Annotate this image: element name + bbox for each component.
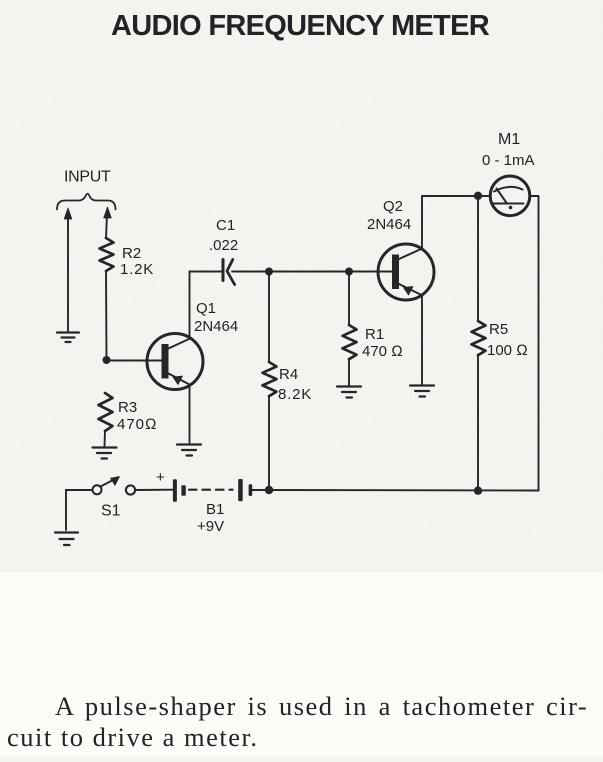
svg-text:470 Ω: 470 Ω	[362, 343, 403, 360]
wire top row to meter	[422, 195, 491, 197]
ground input left	[57, 333, 79, 343]
ground S1	[55, 533, 78, 546]
node F junction dot (bottom R5)	[474, 487, 482, 495]
svg-text:.022: .022	[209, 237, 238, 254]
svg-text:1.2K: 1.2K	[120, 261, 154, 278]
svg-text:0 - 1mA: 0 - 1mA	[482, 152, 535, 169]
svg-text:AUDIO FREQUENCY METER: AUDIO FREQUENCY METER	[111, 10, 490, 42]
wire R3 to ground	[104, 431, 107, 446]
svg-text:INPUT: INPUT	[64, 169, 111, 186]
wire input left arrow	[67, 215, 69, 331]
wire Q2 emitter down	[421, 296, 423, 384]
wire node A to Q1 base	[107, 360, 162, 362]
transistor Q1	[147, 334, 203, 390]
ground Q2 emitter	[410, 386, 434, 397]
wire S1 down	[65, 490, 67, 530]
wire battery to bottom row	[252, 489, 539, 492]
svg-text:2N464: 2N464	[367, 216, 411, 233]
svg-text:R2: R2	[122, 245, 141, 262]
svg-text:100 Ω: 100 Ω	[487, 342, 528, 359]
wire meter right to right column	[530, 196, 539, 491]
wire R4 column upper	[268, 272, 270, 363]
wire S1 to battery	[136, 489, 173, 491]
resistor R4	[263, 362, 277, 396]
svg-text:R3: R3	[118, 399, 137, 416]
node D junction dot (R5/meter tap)	[474, 192, 482, 200]
svg-text:+9V: +9V	[197, 518, 224, 535]
wire R5 column	[477, 196, 479, 491]
svg-text:8.2K: 8.2K	[278, 386, 312, 403]
ground R1	[337, 387, 361, 398]
capacitor C1	[222, 260, 225, 281]
node C junction dot (R1 tap)	[345, 268, 353, 276]
wire Q2 collector up	[421, 196, 423, 249]
svg-text:C1: C1	[216, 217, 235, 234]
wire Q1 collector up	[189, 272, 191, 339]
wire Q1 emitter down	[189, 385, 191, 443]
svg-text:B1: B1	[206, 501, 224, 518]
wire R1 to ground	[348, 359, 350, 385]
svg-text:2N464: 2N464	[194, 318, 238, 335]
svg-text:R5: R5	[489, 321, 508, 338]
battery B1 left cell	[173, 479, 177, 502]
wire R1 column upper	[348, 272, 350, 326]
resistor R5	[472, 321, 486, 355]
battery dashed middle	[189, 489, 233, 491]
svg-text:470Ω: 470Ω	[117, 416, 158, 433]
node A junction dot	[103, 356, 111, 364]
svg-text:S1: S1	[101, 503, 121, 520]
wire input right arrow	[106, 214, 107, 238]
battery B1 right cell	[238, 479, 243, 501]
ground Q1 emitter	[177, 445, 201, 456]
wire R2 to node A	[105, 271, 108, 360]
svg-text:R1: R1	[365, 326, 384, 343]
wire R4 column lower	[268, 396, 270, 491]
transistor Q2	[378, 244, 434, 300]
meter M1	[490, 176, 530, 216]
svg-text:Q2: Q2	[383, 198, 403, 215]
svg-text:+: +	[156, 469, 165, 486]
svg-text:A pulse-shaper is used in a ta: A pulse-shaper is used in a tachometer c…	[55, 691, 588, 721]
wire main row left segment	[190, 271, 223, 273]
ground R3	[93, 448, 117, 459]
resistor R1	[343, 325, 357, 359]
node B junction dot (R4 tap)	[265, 268, 273, 276]
resistor R2	[100, 238, 114, 271]
wire Q2 base	[349, 271, 392, 273]
svg-text:Q1: Q1	[196, 300, 216, 317]
wire main row middle segment	[232, 271, 378, 273]
wire S1 feed	[66, 489, 93, 491]
switch S1	[93, 485, 102, 494]
resistor R3	[99, 393, 113, 431]
svg-text:cuit to drive a meter.: cuit to drive a meter.	[7, 722, 259, 752]
input brace	[57, 194, 116, 210]
svg-text:R4: R4	[279, 366, 298, 383]
node E junction dot (battery/R4)	[265, 486, 273, 494]
svg-text:M1: M1	[498, 131, 520, 148]
